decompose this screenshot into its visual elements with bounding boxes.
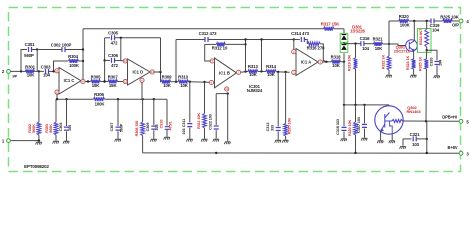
svg-text:C317 103: C317 103 [357,117,361,133]
svg-text:R306: R306 [94,92,105,97]
ground [164,137,170,139]
wire tap2 [261,40,263,72]
wire emitter q302 [380,131,382,140]
resistor R305 [85,74,108,87]
wire rail [389,20,459,22]
ground [53,141,59,143]
capacitor C319 [430,19,441,33]
label Q302 [406,105,421,114]
wire tap1 [175,40,177,82]
wire b+ bus [143,152,459,155]
transistor Q301 [406,21,418,51]
pin 13 [123,59,127,63]
capacitor C314 [291,31,310,44]
svg-text:C311: C311 [182,119,186,127]
ground [224,142,230,144]
capacitor C317 [357,105,367,138]
resistor R314 [266,64,290,77]
svg-text:C314 473: C314 473 [291,31,310,36]
pin 4 [140,78,144,99]
pin 7 [237,70,241,74]
svg-text:R320 10K: R320 10K [348,120,352,137]
capacitor C302 [37,42,83,52]
wire feedback top [82,29,84,80]
pin 2 [292,40,296,54]
text IC301 [247,84,263,93]
wire c321 gnd [402,139,404,146]
ground [282,140,288,142]
svg-text:R321: R321 [373,36,384,41]
svg-text:R320: R320 [399,14,410,19]
wire base q301 [344,42,406,45]
ground [115,139,121,141]
svg-text:C322 103: C322 103 [208,114,212,130]
node 5 (DPB) [442,114,469,124]
svg-text:R323 1K: R323 1K [406,56,410,71]
diode D301b [340,44,348,53]
svg-text:R309: R309 [162,75,173,80]
svg-text:C318 333: C318 333 [336,119,340,135]
ground [275,140,281,142]
svg-text:C304: C304 [59,122,63,132]
node 1 (gnd) [2,138,11,143]
capacitor C321 [403,132,428,147]
resistor R308 [135,99,145,153]
svg-text:10K: 10K [163,83,172,88]
svg-text:R311 10K: R311 10K [197,113,201,129]
svg-text:1SS226: 1SS226 [350,28,365,33]
svg-text:2SC2712: 2SC2712 [394,48,411,53]
op-amp IC1 B [215,58,237,88]
svg-text:C312 473: C312 473 [199,31,218,36]
wire sidechain [176,38,295,40]
svg-text:R307: R307 [108,74,119,79]
pin 3 [292,70,296,74]
capacitor C307 [110,99,124,138]
svg-text:11: 11 [225,87,228,91]
ground [389,141,395,143]
resistor R307 [108,74,123,87]
resistor R301 [25,64,36,77]
wire out A [322,61,331,63]
wire base q302 [403,120,459,122]
wire b+ vert [426,121,428,153]
resistor R325 [440,14,460,27]
svg-text:C307: C307 [110,123,114,132]
resistor R319 [348,44,358,105]
capacitor C316 [360,36,371,51]
svg-text:B+8V: B+8V [448,145,458,150]
svg-text:R313: R313 [248,64,259,69]
resistor R327 [348,105,358,153]
svg-text:R315 10K: R315 10K [287,118,291,135]
svg-text:15K: 15K [109,83,118,88]
label Q301 [394,44,411,53]
svg-text:C303: C303 [41,64,52,69]
svg-text:C301: C301 [25,42,36,47]
pin 5 [210,59,214,63]
capacitor C310 [159,99,172,136]
capacitor C318 [336,105,346,138]
svg-text:EPT0098202: EPT0098202 [24,164,49,169]
label D301 [350,24,365,33]
op-amp IC1 D [128,59,151,85]
resistor R313 [248,64,266,77]
svg-text:103: 103 [182,128,186,134]
svg-text:13: 13 [124,59,128,63]
ground [186,139,192,141]
svg-text:C306: C306 [108,53,119,58]
ground [361,138,367,140]
svg-text:C320: C320 [429,58,433,67]
node 3 (B+) [448,145,470,156]
wire out B [241,70,248,72]
wire node A [103,38,105,83]
svg-text:10K: 10K [180,83,189,88]
wire diode bottom [343,53,345,62]
capacitor C301 [21,42,38,71]
svg-text:R305: R305 [91,74,102,79]
wire e2 q302 [391,133,393,140]
capacitor C303 [41,64,55,77]
resistor R315 [284,72,292,140]
svg-text:R319 10K: R319 10K [348,55,352,72]
resistor R322 [381,21,391,75]
resistor R324 [418,21,432,52]
resistor R318 [331,55,346,69]
resistor R310 [178,75,209,88]
node 4 (O/P) [459,19,469,24]
svg-text:R325 1K: R325 1K [419,57,423,72]
pin 10 [55,90,59,97]
resistor R306 [94,92,106,106]
wire bias rail [56,97,167,100]
svg-text:R312 10: R312 10 [212,46,228,51]
svg-text:104: 104 [43,73,51,78]
resistor R311 [197,82,206,139]
svg-text:472: 472 [111,63,119,68]
svg-text:104: 104 [432,28,440,33]
ground [410,75,416,77]
svg-text:R324 4K7: R324 4K7 [419,29,423,45]
svg-text:R325 10K: R325 10K [440,14,460,19]
capacitor C304 [59,99,72,141]
svg-text:10K: 10K [375,46,384,51]
op-amp IC1 C [59,68,81,95]
svg-text:104: 104 [68,124,72,131]
pin 6 [209,80,213,84]
svg-text:560P: 560P [24,53,34,58]
svg-text:104: 104 [439,59,443,66]
ground [341,139,347,141]
ground [201,139,207,141]
svg-text:O/P: O/P [452,23,459,28]
capacitor C313 [266,72,281,140]
pin 8 [81,79,85,83]
ground [213,139,219,141]
capacitor C320 [427,50,443,75]
svg-text:104: 104 [362,46,370,51]
svg-text:R310: R310 [178,75,189,80]
svg-text:R316 270: R316 270 [307,45,326,50]
svg-text:10K: 10K [27,73,36,78]
pin 11 [225,87,229,141]
svg-text:R308 150: R308 150 [135,121,139,137]
wire out D [154,71,161,82]
resistor R304 [52,54,83,73]
wire input [10,70,44,72]
svg-text:IC1 D: IC1 D [132,70,143,75]
resistor R309 [161,75,178,88]
wire C305 drop [160,38,162,72]
wire stack drop [343,62,345,105]
resistor R320 [399,14,411,28]
wire diode drop [343,29,345,35]
svg-text:15K: 15K [92,83,101,88]
pin 12 [123,79,127,83]
ground [150,139,156,141]
ground [63,141,69,143]
svg-text:10K: 10K [249,72,258,77]
svg-text:475/1: 475/1 [169,121,173,130]
svg-text:C316: C316 [360,36,371,41]
capacitor C312 [199,31,218,42]
schematic boundary (dashed) [9,8,461,172]
svg-text:100K: 100K [95,101,106,106]
pin 9 [55,69,59,73]
resistor R303 [45,99,58,141]
node 2 (I/P) [2,69,18,78]
wire pin11 link [216,92,229,94]
svg-text:10K: 10K [332,63,341,68]
capacitor C309 [146,99,159,138]
svg-text:DPB=Hi: DPB=Hi [442,114,457,119]
ground [434,76,440,78]
svg-text:560K: 560K [49,124,53,133]
svg-text:I/P: I/P [13,74,18,79]
svg-text:C302 100P: C302 100P [51,42,72,47]
resistor R317 [321,22,344,31]
svg-text:C321: C321 [410,132,421,137]
svg-text:103: 103 [412,142,420,147]
pin 14 [150,70,154,74]
resistor R323 [406,51,416,75]
svg-text:14: 14 [151,70,155,74]
svg-text:C310: C310 [159,120,163,129]
wire main top [83,28,324,30]
resistor R326 [419,50,429,121]
resistor R321 [373,36,384,51]
svg-text:NJM324: NJM324 [247,88,263,93]
wire B vert [244,40,246,72]
capacitor C306 [105,53,124,68]
svg-text:10: 10 [55,90,59,94]
svg-text:R304: R304 [68,54,79,59]
svg-text:333: 333 [270,125,274,131]
wire link [120,38,122,61]
svg-text:472: 472 [111,41,119,46]
svg-text:560K: 560K [32,124,36,133]
ground [36,142,42,144]
wire gnd input [10,139,40,141]
svg-text:100K: 100K [400,22,411,27]
svg-text:R318: R318 [331,55,342,60]
ground [386,75,392,77]
svg-text:IC1 B: IC1 B [219,70,230,75]
svg-text:R301: R301 [25,64,36,69]
capacitor C322 [208,94,218,139]
resistor R302 [28,71,41,140]
svg-text:IC1 C: IC1 C [64,78,75,83]
svg-text:R314: R314 [266,64,277,69]
svg-text:100K: 100K [69,63,80,68]
resistor R316 [307,42,327,62]
svg-text:C305: C305 [108,30,119,35]
transistor Q302 [375,106,403,134]
diode D301a [340,34,348,43]
ground [400,146,406,148]
svg-text:IC1 A: IC1 A [301,60,312,65]
svg-text:RN1403: RN1403 [406,109,421,114]
svg-text:R317 15K: R317 15K [321,22,341,27]
capacitor C305 [105,30,161,45]
ground [377,141,383,143]
svg-text:R322 1K: R322 1K [381,55,385,70]
svg-text:C309: C309 [146,123,150,132]
resistor R312 [205,43,246,62]
svg-text:12: 12 [124,80,128,84]
svg-text:560P: 560P [120,123,124,132]
svg-text:10K: 10K [267,72,276,77]
svg-text:C313: C313 [266,123,270,132]
capacitor C311 [182,82,192,139]
junction [343,42,345,44]
text board id [24,164,49,169]
pin 1 [318,60,322,64]
wire mid rail [343,104,389,106]
op-amp IC1 A [296,49,318,76]
